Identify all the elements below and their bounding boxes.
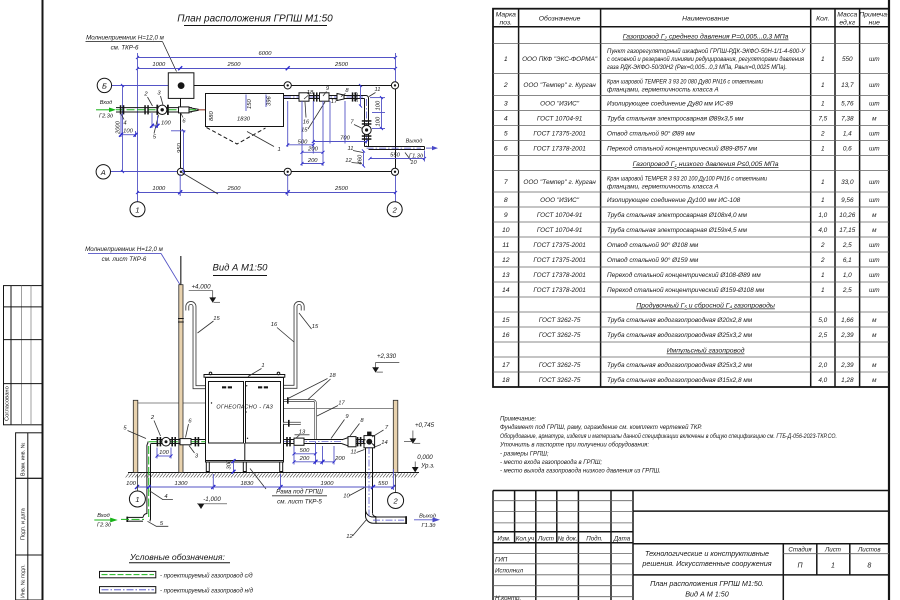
svg-text:- проектируемый газопровод н/д: - проектируемый газопровод н/д <box>160 588 254 595</box>
svg-text:6,1: 6,1 <box>843 257 852 264</box>
svg-text:2,5: 2,5 <box>842 287 852 294</box>
svg-text:0,000: 0,000 <box>417 454 433 461</box>
svg-text:шт: шт <box>869 242 880 249</box>
plan diagonal leader at fence corner <box>181 172 218 194</box>
svg-text:11: 11 <box>374 87 380 93</box>
side callouts 9 8 7 13 14 11 10 12 <box>295 414 389 540</box>
svg-text:500: 500 <box>354 92 360 102</box>
svg-text:ние: ние <box>869 20 881 27</box>
side inlet fittings <box>157 437 200 446</box>
svg-text:Согласовано: Согласовано <box>5 386 11 421</box>
plan dim 6000 <box>138 51 396 57</box>
svg-text:фланцами, герметичность класса: фланцами, герметичность класса А <box>607 184 719 191</box>
svg-text:11: 11 <box>350 450 356 456</box>
svg-text:1,4: 1,4 <box>843 131 852 138</box>
svg-text:Уточнить в паспорте при получе: Уточнить в паспорте при получении оборуд… <box>499 443 649 449</box>
side frame callout text <box>250 469 327 506</box>
svg-text:Стадия: Стадия <box>788 547 812 554</box>
svg-text:16: 16 <box>303 119 310 125</box>
svg-text:500: 500 <box>298 139 308 145</box>
svg-text:ГОСТ 10704-91: ГОСТ 10704-91 <box>537 227 583 234</box>
svg-text:2,39: 2,39 <box>840 332 854 339</box>
svg-text:1,28: 1,28 <box>841 377 854 384</box>
svg-text:решения. Искусственные сооруже: решения. Искусственные сооружения <box>641 559 771 568</box>
svg-text:100: 100 <box>159 450 169 456</box>
svg-text:18: 18 <box>329 373 336 379</box>
svg-text:Рама под ГРПШ: Рама под ГРПШ <box>276 489 323 496</box>
svg-text:1000: 1000 <box>152 62 166 68</box>
svg-text:100: 100 <box>123 128 133 134</box>
side dims 500 200 200 under outlet <box>294 442 346 465</box>
svg-text:14: 14 <box>502 287 510 294</box>
svg-text:4,0: 4,0 <box>818 377 827 384</box>
left attribute strip: Soglasovano block <box>4 286 43 425</box>
svg-text:шт: шт <box>869 131 880 138</box>
legend item gas pipe s/d <box>100 571 254 579</box>
svg-text:1: 1 <box>135 495 139 504</box>
plan inlet pipe fittings <box>120 105 189 115</box>
svg-text:5,0: 5,0 <box>818 317 827 324</box>
svg-text:Взам. инв. №: Взам. инв. № <box>21 442 27 476</box>
svg-text:4,0: 4,0 <box>818 227 827 234</box>
svg-text:11: 11 <box>347 146 353 152</box>
svg-text:Н.контр.: Н.контр. <box>495 595 521 600</box>
svg-text:шт: шт <box>869 56 880 63</box>
svg-text:шт: шт <box>869 257 880 264</box>
svg-text:- место выхода газопровода низ: - место выхода газопровода низкого давле… <box>500 469 661 475</box>
svg-text:2: 2 <box>503 82 508 89</box>
side ground line <box>128 472 419 474</box>
svg-text:Труба стальная водогазопроводн: Труба стальная водогазопроводная Ø15х2,8… <box>607 376 753 384</box>
plan fence posts <box>177 82 398 176</box>
legend title <box>129 552 230 563</box>
svg-text:шт: шт <box>869 146 880 153</box>
svg-text:150: 150 <box>247 99 253 109</box>
plan lightning rod callout <box>86 35 177 72</box>
svg-text:см. ТКР-6: см. ТКР-6 <box>111 45 139 52</box>
svg-text:ГОСТ 10704-91: ГОСТ 10704-91 <box>537 212 583 219</box>
table column: Marka poz <box>502 56 510 384</box>
svg-text:2500: 2500 <box>227 62 242 68</box>
svg-text:460: 460 <box>357 154 363 164</box>
svg-text:фланцами, герметичность класса: фланцами, герметичность класса А <box>607 87 719 94</box>
svg-text:Дата: Дата <box>613 536 631 543</box>
svg-text:4: 4 <box>504 116 508 123</box>
svg-text:Масса: Масса <box>837 12 857 19</box>
svg-text:1: 1 <box>504 56 508 63</box>
svg-text:550: 550 <box>390 153 400 159</box>
svg-text:2: 2 <box>820 242 825 249</box>
table column: Oboznachenie <box>522 56 598 384</box>
svg-text:1: 1 <box>278 147 281 153</box>
side level -1.000 <box>197 496 227 509</box>
side inlet pipe green <box>94 440 205 529</box>
svg-text:1,66: 1,66 <box>841 317 854 324</box>
plan axis circle 2 <box>387 202 402 217</box>
side cabinet frame legs <box>206 459 282 474</box>
plan right callouts and dims <box>301 86 417 166</box>
svg-text:Инв. № подл.: Инв. № подл. <box>21 564 27 598</box>
svg-text:шт: шт <box>869 272 880 279</box>
svg-text:шт: шт <box>869 179 880 186</box>
svg-text:ГОСТ 17378-2001: ГОСТ 17378-2001 <box>533 146 586 153</box>
svg-text:Труба стальная водогазопроводн: Труба стальная водогазопроводная Ø25х3,2… <box>607 361 753 369</box>
sheet left frame line <box>42 0 44 600</box>
svg-text:ГОСТ 17375-2001: ГОСТ 17375-2001 <box>533 257 586 264</box>
svg-text:Труба стальная электросварная: Труба стальная электросварная Ø108х4,0 м… <box>607 211 748 219</box>
side outlet pipe <box>284 437 368 447</box>
side ground hatching <box>126 473 418 477</box>
svg-text:10: 10 <box>343 494 350 500</box>
svg-text:2: 2 <box>820 257 825 264</box>
svg-text:11: 11 <box>502 242 509 249</box>
svg-text:Лист: Лист <box>537 536 554 543</box>
svg-text:300: 300 <box>227 459 233 469</box>
svg-text:14: 14 <box>381 440 387 446</box>
svg-text:+4,000: +4,000 <box>191 284 211 291</box>
svg-text:15: 15 <box>312 324 319 330</box>
plan fence rectangle <box>181 86 396 172</box>
svg-text:1000: 1000 <box>152 186 166 192</box>
svg-text:2500: 2500 <box>227 186 242 192</box>
svg-text:Кран шаровой TEMPER 3 93 20 08: Кран шаровой TEMPER 3 93 20 080 Ду80 РN1… <box>607 78 763 86</box>
svg-text:Оборудование, арматура, издели: Оборудование, арматура, изделия и матери… <box>500 433 837 440</box>
svg-text:18: 18 <box>502 377 510 384</box>
svg-text:10,26: 10,26 <box>839 212 855 219</box>
svg-text:Молниеприемник Н=12,0 м: Молниеприемник Н=12,0 м <box>85 246 163 253</box>
svg-text:Газопровод Г1 низкого давления: Газопровод Г1 низкого давления Р≤0,005 М… <box>633 160 779 168</box>
svg-text:2,5: 2,5 <box>842 242 852 249</box>
svg-text:Вход: Вход <box>97 513 109 519</box>
svg-text:880: 880 <box>209 111 215 121</box>
svg-text:Условные обозначения:: Условные обозначения: <box>129 552 225 562</box>
svg-text:1: 1 <box>821 179 825 186</box>
svg-text:Переход стальной концентрическ: Переход стальной концентрический Ø89-Ø57… <box>607 145 758 153</box>
svg-text:2500: 2500 <box>334 62 349 68</box>
svg-text:Примечание:: Примечание: <box>500 417 537 423</box>
svg-text:17: 17 <box>331 99 338 105</box>
svg-text:13: 13 <box>502 272 510 279</box>
svg-text:шт: шт <box>869 82 880 89</box>
left attribute strip: Vzam inv block <box>16 433 42 479</box>
svg-text:1: 1 <box>821 56 825 63</box>
side level +4.000 <box>189 284 220 303</box>
side right fence post <box>393 400 398 472</box>
svg-text:200: 200 <box>307 158 318 164</box>
svg-text:ООО "Темпер" г. Курган: ООО "Темпер" г. Курган <box>523 82 596 89</box>
svg-text:2,39: 2,39 <box>840 362 854 369</box>
svg-text:6000: 6000 <box>259 51 273 57</box>
svg-text:16: 16 <box>271 322 278 328</box>
svg-text:Изолирующее соединение Ду100 м: Изолирующее соединение Ду100 мм ИС-108 <box>607 196 741 204</box>
svg-text:100: 100 <box>376 116 382 126</box>
svg-text:см. лист ТКР-6: см. лист ТКР-6 <box>102 256 147 263</box>
svg-text:ГОСТ 17375-2001: ГОСТ 17375-2001 <box>533 131 586 138</box>
svg-text:Г2.3д: Г2.3д <box>97 523 111 529</box>
svg-text:Вид А М 1:50: Вид А М 1:50 <box>685 590 729 599</box>
svg-text:100: 100 <box>126 481 136 487</box>
svg-text:А: А <box>100 168 106 177</box>
side lightning callout <box>85 246 180 285</box>
title block grid <box>493 491 889 600</box>
svg-text:2: 2 <box>393 497 399 506</box>
svg-text:ГОСТ 17378-2001: ГОСТ 17378-2001 <box>533 272 586 279</box>
side level +0.745 <box>404 422 435 444</box>
svg-text:100: 100 <box>376 100 382 110</box>
svg-text:7: 7 <box>504 179 508 186</box>
svg-text:Кол.уч: Кол.уч <box>516 536 535 543</box>
plan inlet pipe <box>116 108 206 112</box>
plan IS joint 6 <box>179 107 190 113</box>
svg-text:4: 4 <box>123 121 126 127</box>
svg-text:1: 1 <box>821 197 825 204</box>
svg-text:Продувочный Г5 и сбросной Г4 г: Продувочный Г5 и сбросной Г4 газопроводы <box>636 302 775 310</box>
svg-text:ГОСТ 3262-75: ГОСТ 3262-75 <box>539 377 581 384</box>
side lightning mast <box>178 256 184 473</box>
axis circle B <box>97 78 111 92</box>
svg-text:Отвод стальной 90° Ø108 мм: Отвод стальной 90° Ø108 мм <box>607 241 699 249</box>
svg-text:м: м <box>872 212 877 219</box>
svg-text:ООО "Темпер" г. Курган: ООО "Темпер" г. Курган <box>523 179 596 186</box>
legend item gas pipe n/d <box>100 587 254 595</box>
side callout 18 <box>288 373 336 400</box>
svg-text:2500: 2500 <box>334 186 349 192</box>
svg-text:- размеры ГРПШ;: - размеры ГРПШ; <box>500 452 549 458</box>
svg-text:200: 200 <box>307 146 318 152</box>
svg-text:Лист: Лист <box>824 547 841 554</box>
svg-text:Труба стальная водогазопроводн: Труба стальная водогазопроводная Ø25х3,2… <box>607 331 753 339</box>
svg-text:м: м <box>872 227 877 234</box>
svg-text:+2,330: +2,330 <box>377 353 397 360</box>
svg-text:ГИП: ГИП <box>495 557 508 564</box>
svg-text:+0,745: +0,745 <box>415 422 435 429</box>
svg-text:м: м <box>872 317 877 324</box>
plan inlet callouts <box>119 90 186 140</box>
svg-text:шт: шт <box>869 197 880 204</box>
svg-text:ООО "ИЗИС": ООО "ИЗИС" <box>540 101 580 108</box>
svg-text:поз.: поз. <box>500 20 513 27</box>
svg-text:Изм.: Изм. <box>497 536 510 543</box>
svg-text:ГОСТ 17378-2001: ГОСТ 17378-2001 <box>533 287 586 294</box>
table column: Naimenovanie <box>607 47 806 384</box>
svg-text:13,7: 13,7 <box>841 82 854 89</box>
svg-text:Газопровод Г2 среднего давлени: Газопровод Г2 среднего давления Р=0,005.… <box>623 33 789 41</box>
svg-text:100: 100 <box>161 120 171 126</box>
svg-text:Марка: Марка <box>496 12 517 19</box>
svg-text:1900: 1900 <box>321 481 335 487</box>
svg-text:Исполнил: Исполнил <box>495 568 524 575</box>
side outlet elbow down underground <box>363 440 407 524</box>
plan dim row 1000 2500 2500 <box>138 53 396 202</box>
plan outlet pipes right of cabinet <box>284 92 365 101</box>
svg-text:м: м <box>872 116 877 123</box>
svg-text:с основной и резервной линиями: с основной и резервной линиями редуциров… <box>607 55 805 63</box>
plan inlet arrow <box>96 100 116 120</box>
svg-text:ГОСТ 17375-2001: ГОСТ 17375-2001 <box>533 242 586 249</box>
svg-text:2: 2 <box>820 131 825 138</box>
svg-text:5: 5 <box>504 131 508 138</box>
svg-text:Ур.з.: Ур.з. <box>420 462 435 469</box>
svg-text:12: 12 <box>345 158 352 164</box>
svg-text:6: 6 <box>504 146 508 153</box>
svg-text:2,0: 2,0 <box>817 362 827 369</box>
svg-text:8: 8 <box>867 563 871 570</box>
svg-text:7,5: 7,5 <box>818 116 827 123</box>
svg-text:1: 1 <box>261 363 264 369</box>
side cabinet callout 1 <box>248 363 265 377</box>
svg-text:200: 200 <box>334 456 345 462</box>
plan valve 2 <box>158 105 167 114</box>
svg-text:ООО "ИЗИС": ООО "ИЗИС" <box>540 197 580 204</box>
side inlet callouts <box>123 415 199 527</box>
svg-text:Наименование: Наименование <box>682 16 729 23</box>
svg-text:3: 3 <box>504 101 508 108</box>
svg-text:1: 1 <box>821 82 825 89</box>
svg-text:ООО ПКФ "ЭКС-ФОРМА": ООО ПКФ "ЭКС-ФОРМА" <box>522 56 598 63</box>
svg-text:Г1.3д: Г1.3д <box>422 523 436 529</box>
svg-text:17,15: 17,15 <box>839 227 855 234</box>
svg-text:шт: шт <box>869 287 880 294</box>
side impulse pipe 18 <box>284 397 316 439</box>
side fence rails <box>137 403 394 409</box>
side axis circle 1 <box>129 491 145 507</box>
svg-text:Отвод стальной 90° Ø89 мм: Отвод стальной 90° Ø89 мм <box>607 130 695 138</box>
plan axis circle 1 <box>130 202 145 217</box>
svg-text:17: 17 <box>502 362 510 369</box>
svg-text:396: 396 <box>267 96 273 106</box>
svg-text:Примеча-: Примеча- <box>859 12 890 19</box>
svg-text:9,56: 9,56 <box>841 197 854 204</box>
svg-text:Молниеприемник Н=12,0 м: Молниеприемник Н=12,0 м <box>86 35 164 42</box>
svg-text:0,6: 0,6 <box>843 146 852 153</box>
plan axis B line <box>97 78 181 92</box>
svg-text:33,0: 33,0 <box>841 179 854 186</box>
svg-text:1: 1 <box>135 205 139 214</box>
plan outlet elbow down <box>365 96 369 149</box>
svg-text:Импульсный газопровод: Импульсный газопровод <box>667 347 745 355</box>
svg-text:500: 500 <box>300 448 310 454</box>
left attribute strip: Inv N podl block <box>16 555 42 600</box>
svg-text:4: 4 <box>164 494 167 500</box>
side vent callouts <box>198 313 319 342</box>
specification table text <box>496 12 890 355</box>
svg-text:1: 1 <box>831 563 835 570</box>
svg-text:Пункт газорегуляторный шкафной: Пункт газорегуляторный шкафной ГРПШ-РДК-… <box>607 47 806 55</box>
side relief stub <box>283 420 301 427</box>
svg-text:ед,кг: ед,кг <box>839 19 856 27</box>
side axis circle 2 <box>388 493 404 509</box>
svg-text:1: 1 <box>821 272 825 279</box>
svg-text:Переход стальной концентрическ: Переход стальной концентрический Ø159-Ø1… <box>607 286 765 294</box>
svg-text:1: 1 <box>821 101 825 108</box>
notes <box>499 417 837 475</box>
svg-text:Вид А М1:50: Вид А М1:50 <box>213 263 269 274</box>
svg-text:см. лист ТКР-5: см. лист ТКР-5 <box>277 499 322 506</box>
side left fence post <box>133 400 138 472</box>
svg-text:ГОСТ 3262-75: ГОСТ 3262-75 <box>539 362 581 369</box>
svg-text:8: 8 <box>504 197 508 204</box>
plan title <box>177 14 333 26</box>
side valve 7 <box>364 432 375 448</box>
plan dim 2000 vertical <box>116 86 123 172</box>
side bottom dim chain <box>126 469 395 492</box>
svg-text:1: 1 <box>821 287 825 294</box>
plan valve 7 on vertical pipe <box>362 120 372 140</box>
side cabinet 1 <box>204 372 285 462</box>
side callout 17 <box>317 400 345 416</box>
svg-text:1,0: 1,0 <box>818 212 827 219</box>
svg-text:Труба стальная электросварная: Труба стальная электросварная Ø159х4,5 м… <box>607 226 748 234</box>
svg-text:15: 15 <box>502 317 510 324</box>
svg-text:План расположения ГРПШ М1:50: План расположения ГРПШ М1:50 <box>177 14 333 25</box>
svg-text:ГОСТ 3262-75: ГОСТ 3262-75 <box>539 317 581 324</box>
svg-text:1830: 1830 <box>237 117 251 123</box>
svg-text:15: 15 <box>213 316 220 322</box>
svg-text:16: 16 <box>502 332 510 339</box>
svg-text:Фундамент под ГРПШ, раму, огра: Фундамент под ГРПШ, раму, ограждение см.… <box>500 424 702 431</box>
svg-text:550: 550 <box>842 56 853 63</box>
svg-text:Подп.: Подп. <box>586 536 602 543</box>
svg-text:Подп. и дата: Подп. и дата <box>21 508 27 540</box>
svg-text:Кран шаровой TEMPER 3 93 20 10: Кран шаровой TEMPER 3 93 20 100 Ду100 РN… <box>607 175 767 183</box>
svg-text:шт: шт <box>869 101 880 108</box>
svg-text:2,5: 2,5 <box>817 332 827 339</box>
svg-text:м: м <box>872 377 877 384</box>
specification table grid <box>493 9 889 387</box>
svg-text:Переход стальной концентрическ: Переход стальной концентрический Ø108-Ø8… <box>607 271 761 279</box>
svg-text:газа РДК-ЭКФО-50/30Н2 (Рвх=0,0: газа РДК-ЭКФО-50/30Н2 (Рвх=0,005...0,3 М… <box>607 64 787 71</box>
svg-text:Кол.: Кол. <box>816 16 829 23</box>
plan bottom dims <box>138 174 396 196</box>
svg-text:1: 1 <box>821 146 825 153</box>
title block text <box>495 536 881 600</box>
svg-text:- проектируемый газопровод с/д: - проектируемый газопровод с/д <box>160 572 253 579</box>
svg-text:Б: Б <box>102 81 107 90</box>
side level 0.000 <box>412 454 435 472</box>
svg-text:Отвод стальной 90° Ø159 мм: Отвод стальной 90° Ø159 мм <box>607 256 699 264</box>
svg-text:Обозначение: Обозначение <box>539 15 581 23</box>
svg-text:ОГНЕОПАСНО - ГАЗ: ОГНЕОПАСНО - ГАЗ <box>216 404 273 410</box>
svg-text:Выход: Выход <box>406 138 423 144</box>
svg-text:м: м <box>872 332 877 339</box>
svg-text:Труба стальная водогазопроводн: Труба стальная водогазопроводная Ø20х2,8… <box>607 316 753 324</box>
svg-text:№ док.: № док. <box>558 536 578 543</box>
plan axis A line <box>96 165 181 179</box>
side right vent candle 15 <box>284 303 303 387</box>
side view title <box>213 263 269 276</box>
svg-text:Труба стальная электросварная: Труба стальная электросварная Ø89х3,5 мм <box>607 115 744 123</box>
svg-text:700: 700 <box>340 136 350 142</box>
svg-text:Г2.3д: Г2.3д <box>99 114 113 120</box>
svg-text:План расположения ГРПШ М1:50.: План расположения ГРПШ М1:50. <box>650 579 764 588</box>
plan lightning receiver square <box>168 73 194 99</box>
axis circle A <box>96 165 110 179</box>
plan cabinet <box>206 94 284 127</box>
svg-text:-1,000: -1,000 <box>203 496 221 503</box>
left attribute strip: Podp i data block <box>16 478 42 555</box>
svg-text:Изолирующее соединение Ду80 мм: Изолирующее соединение Ду80 мм ИС-89 <box>607 100 734 108</box>
svg-text:1,0: 1,0 <box>843 272 852 279</box>
svg-text:1830: 1830 <box>240 481 254 487</box>
svg-text:Листов: Листов <box>857 547 881 554</box>
svg-text:12: 12 <box>346 534 353 540</box>
sheet right frame line <box>888 0 890 600</box>
plan door swing dashed <box>207 128 281 154</box>
svg-text:10: 10 <box>502 227 510 234</box>
svg-text:2: 2 <box>392 205 398 214</box>
svg-text:17: 17 <box>338 400 345 406</box>
svg-text:Вход: Вход <box>100 100 112 106</box>
